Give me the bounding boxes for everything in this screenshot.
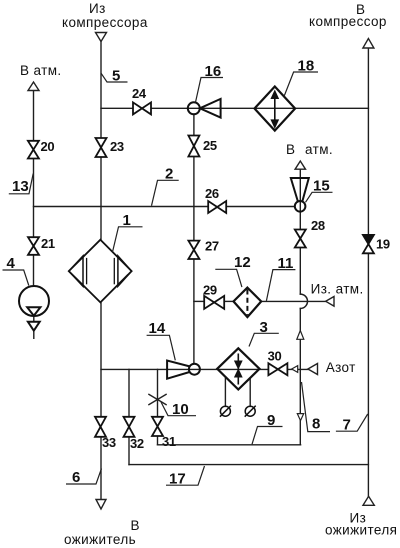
device 4 (circle with drain cones) [19, 286, 49, 331]
svg-text:Азот: Азот [326, 360, 356, 375]
valve 28 [295, 230, 306, 248]
valve 27 [188, 241, 199, 259]
svg-text:10: 10 [172, 401, 189, 418]
svg-text:31: 31 [162, 434, 176, 449]
leader label 13 [9, 174, 33, 196]
ejector 14 (cone + circle) [167, 361, 200, 379]
svg-text:8: 8 [312, 416, 320, 433]
drain ports under filter 3 [220, 406, 256, 417]
svg-text:24: 24 [132, 86, 147, 101]
filter 18 (diamond with double arrow) [255, 87, 296, 131]
leader label 7 [336, 414, 368, 434]
pipe: nitrogen horizontal through ejector 14, filter 3, valve 30 [101, 368, 308, 370]
leader label 5 [101, 67, 128, 84]
pipe: top horizontal to valve 24 [101, 107, 133, 109]
pipe 17: horizontal y=464.6 [129, 464, 368, 466]
pipe 9: horizontal y=444.8 [158, 444, 301, 446]
valve 30 [268, 363, 287, 375]
port arrow: to atmosphere (left) [28, 82, 39, 91]
svg-text:ожижителя: ожижителя [325, 523, 397, 538]
svg-text:В атм.: В атм. [20, 63, 62, 78]
pipe: drop to valve 32 [128, 369, 130, 464]
label "Из компрессора" [62, 1, 148, 30]
filter 3 (diamond with inward arrows) [217, 348, 259, 389]
port arrow: to liquefier (bottom) [96, 500, 106, 510]
ejector 16 (circle + cone) [188, 99, 221, 118]
svg-text:15: 15 [313, 178, 330, 195]
svg-text:26: 26 [205, 186, 219, 201]
valve 25 [188, 136, 199, 157]
svg-text:23: 23 [110, 139, 124, 154]
leader label 9 [252, 412, 283, 444]
svg-text:32: 32 [130, 436, 144, 451]
leader label 18 [284, 58, 318, 97]
svg-text:30: 30 [268, 348, 282, 363]
valve 19 (top half filled) [363, 235, 374, 253]
leader label 17 [166, 466, 205, 488]
svg-text:Из: Из [89, 1, 106, 16]
pipe 11: horizontal through filter 12 to atmosphere intake [194, 300, 326, 302]
leader label 1 [113, 212, 143, 252]
label "В атм." (above muffler 15) [286, 142, 333, 157]
svg-text:9: 9 [267, 412, 275, 429]
flow arrow left on nitrogen pipe [292, 366, 298, 373]
svg-text:21: 21 [41, 236, 55, 251]
svg-text:29: 29 [203, 283, 217, 298]
pipe: drains from filter 3 [225, 377, 250, 406]
port arrow: to compressor (top right) [363, 39, 374, 49]
label "В ожижитель" (bottom) [64, 518, 140, 547]
svg-text:1: 1 [123, 212, 131, 229]
port arrow: from atmosphere (right of filter 12) [326, 297, 334, 307]
svg-text:16: 16 [205, 63, 222, 80]
valve 33 [95, 417, 106, 437]
filter 12 (diamond with dashed line) [234, 288, 262, 318]
svg-text:13: 13 [12, 178, 29, 195]
leader label 4 [3, 255, 29, 286]
adsorber 1 (diamond with two nozzles) [69, 240, 132, 303]
port arrow: from compressor (top) [96, 33, 107, 42]
flow arrow down on pipe 8 [297, 414, 303, 421]
svg-text:20: 20 [41, 139, 55, 154]
svg-text:18: 18 [298, 58, 315, 75]
svg-text:7: 7 [343, 417, 351, 434]
svg-text:4: 4 [7, 255, 16, 272]
port arrow: from liquefier (bottom right) [363, 496, 374, 505]
pipe 7: right riser to compressor / from liquefier [367, 48, 369, 496]
port arrow: nitrogen inlet [308, 364, 318, 375]
svg-text:33: 33 [102, 435, 116, 450]
valve 31 [152, 417, 163, 436]
pipe 6: vertical to liquefier [100, 437, 102, 500]
svg-text:В: В [131, 518, 140, 533]
svg-text:11: 11 [278, 255, 294, 272]
leader label 10 [161, 401, 196, 418]
pipe 2: horizontal line y=206.5 [34, 206, 295, 208]
pipe 13: left atmosphere vertical [33, 91, 35, 287]
svg-text:ожижитель: ожижитель [64, 532, 136, 547]
valve 32 [124, 417, 135, 437]
valve 23 [96, 138, 107, 157]
label "Из ожижителя" (bottom right) [325, 511, 397, 538]
port arrow: to atmosphere (above muffler 15) [295, 161, 305, 169]
valve 26 [208, 201, 226, 213]
svg-text:Из. атм.: Из. атм. [311, 282, 364, 297]
valve 20 [28, 141, 39, 159]
svg-text:2: 2 [165, 166, 173, 183]
flow arrow up on pipe 8 [297, 331, 304, 340]
svg-text:компрессора: компрессора [62, 15, 148, 30]
pipe: drain stub below device 4 [33, 316, 35, 338]
svg-text:6: 6 [72, 469, 80, 486]
pipe: drop to restrictor 10 and valve 31 [157, 369, 159, 444]
leader label 16 [196, 63, 224, 102]
svg-text:12: 12 [234, 254, 251, 271]
leader label 12 [215, 254, 250, 287]
svg-text:27: 27 [205, 239, 219, 254]
leader label 3 [249, 319, 279, 347]
valve 24 [133, 102, 151, 114]
pipe 8: vertical from muffler 15 through valve 28, hop, to line 9 [300, 169, 307, 445]
svg-text:28: 28 [311, 218, 325, 233]
valve 21 [28, 237, 39, 255]
svg-text:14: 14 [149, 320, 166, 337]
leader label 14 [147, 320, 176, 360]
svg-text:17: 17 [169, 471, 186, 488]
leader label 8 [302, 382, 331, 433]
svg-text:компрессор: компрессор [309, 14, 387, 29]
svg-text:25: 25 [203, 138, 217, 153]
leader label 2 [152, 166, 179, 206]
restrictor 10 (X symbol) [148, 394, 166, 405]
pipe: main vertical below adsorber 1 [100, 302, 102, 416]
label "В компрессор" (top right) [309, 2, 387, 29]
svg-text:атм.: атм. [305, 142, 333, 157]
svg-text:5: 5 [112, 67, 120, 84]
leader label 11 [266, 255, 295, 301]
pipe: valve 24 to ejector 16 and filter 18 to right riser [151, 107, 368, 109]
leader label 6 [66, 469, 102, 487]
leader label 15 [306, 178, 333, 203]
svg-text:3: 3 [260, 319, 268, 336]
valve 29 [204, 296, 224, 309]
pipe 5: main inlet vertical from compressor [100, 42, 102, 240]
muffler 15 (funnel + circle) [291, 178, 309, 212]
svg-text:В: В [286, 142, 295, 157]
pipe: vertical from ejector 16 down through valves 25,27 to ejector 14 [193, 114, 195, 364]
svg-text:19: 19 [376, 236, 390, 251]
